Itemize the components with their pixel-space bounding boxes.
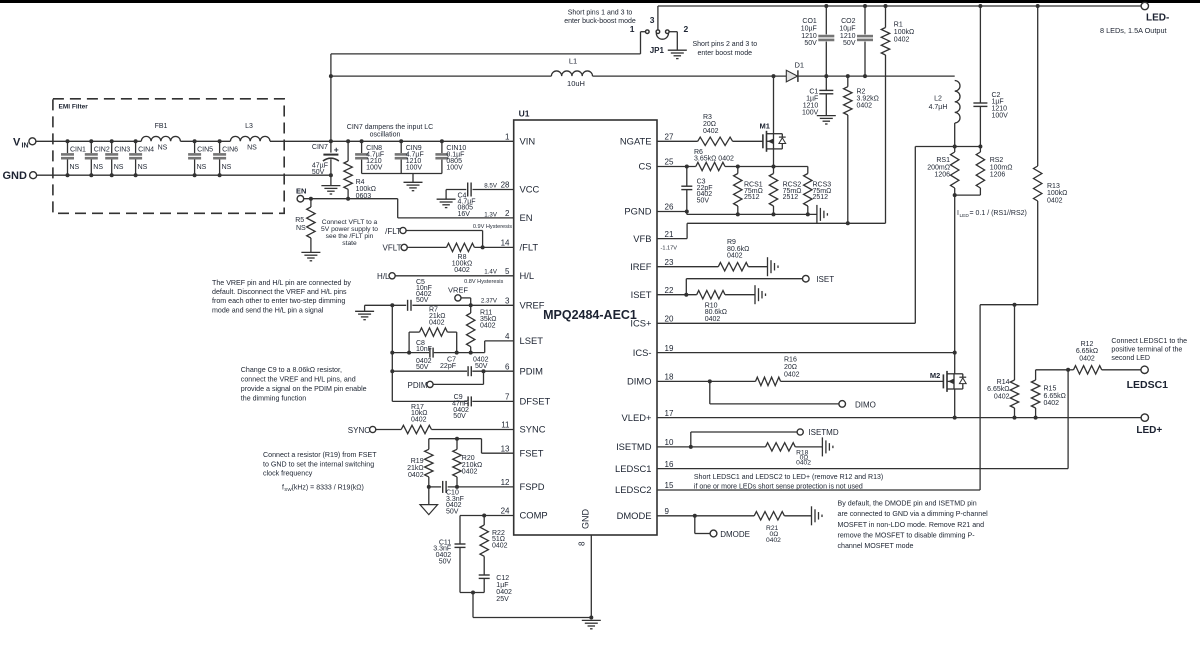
svg-text:50V: 50V	[475, 363, 488, 370]
svg-text:3: 3	[650, 15, 655, 25]
svg-text:IN: IN	[22, 143, 29, 150]
svg-text:0402: 0402	[894, 37, 910, 44]
svg-text:0402: 0402	[411, 416, 427, 423]
svg-text:R13: R13	[1047, 183, 1060, 190]
svg-text:19: 19	[665, 344, 674, 353]
svg-text:/FLT: /FLT	[385, 227, 401, 236]
svg-text:EN: EN	[296, 186, 306, 195]
svg-text:FSPD: FSPD	[520, 481, 545, 492]
svg-text:20: 20	[665, 315, 674, 324]
svg-text:Connect LEDSC1 to the: Connect LEDSC1 to the	[1111, 337, 1187, 345]
svg-text:clock frequency: clock frequency	[263, 470, 313, 478]
svg-text:0402: 0402	[454, 267, 470, 274]
svg-text:13: 13	[501, 444, 510, 453]
svg-text:0402: 0402	[429, 319, 445, 326]
svg-text:R14: R14	[997, 379, 1010, 386]
svg-text:The VREF pin and H/L pin are c: The VREF pin and H/L pin are connected b…	[212, 279, 351, 287]
svg-text:R2: R2	[857, 89, 866, 96]
svg-text:50V: 50V	[312, 169, 325, 176]
svg-text:4.7µH: 4.7µH	[929, 104, 948, 111]
svg-text:100kΩ: 100kΩ	[1047, 190, 1067, 197]
svg-text:50V: 50V	[804, 40, 817, 47]
svg-text:Connect VFLT to a: Connect VFLT to a	[322, 219, 378, 226]
svg-text:10nF: 10nF	[416, 346, 432, 353]
svg-text:DFSET: DFSET	[520, 396, 551, 407]
svg-text:6.65kΩ: 6.65kΩ	[1044, 393, 1066, 400]
svg-text:SYNC: SYNC	[348, 426, 370, 435]
svg-text:100V: 100V	[992, 113, 1009, 120]
svg-text:NS: NS	[247, 145, 257, 152]
svg-text:CIN4: CIN4	[138, 147, 154, 154]
svg-text:2.37V: 2.37V	[481, 298, 498, 305]
svg-text:GND: GND	[581, 509, 591, 530]
svg-text:50V: 50V	[416, 297, 429, 304]
svg-text:NS: NS	[197, 164, 207, 171]
svg-text:0402: 0402	[1044, 400, 1060, 407]
svg-text:4: 4	[505, 332, 510, 341]
svg-text:LEDSC1: LEDSC1	[615, 463, 651, 474]
svg-text:1.4V: 1.4V	[484, 269, 498, 276]
svg-text:C12: C12	[496, 575, 509, 582]
svg-text:RS2: RS2	[990, 157, 1004, 164]
svg-text:10: 10	[665, 438, 674, 447]
svg-text:connect the VREF and H/L pins,: connect the VREF and H/L pins, and	[241, 376, 356, 384]
svg-text:NS: NS	[138, 164, 148, 171]
svg-text:MOSFET in non-LDO mode. Remove: MOSFET in non-LDO mode. Remove R21 and	[838, 521, 985, 529]
svg-text:C1: C1	[809, 89, 818, 96]
svg-text:NS: NS	[70, 164, 80, 171]
svg-text:6.65kΩ: 6.65kΩ	[1076, 348, 1098, 355]
svg-text:LED-: LED-	[1146, 13, 1169, 24]
svg-text:D1: D1	[795, 61, 805, 70]
svg-text:CS: CS	[638, 161, 651, 172]
svg-text:17: 17	[665, 409, 674, 418]
svg-text:0402: 0402	[727, 252, 743, 259]
svg-text:enter boost mode: enter boost mode	[698, 50, 753, 57]
svg-text:0402: 0402	[492, 543, 508, 550]
svg-text:2512: 2512	[744, 194, 760, 201]
svg-text:3: 3	[505, 297, 510, 306]
svg-text:NS: NS	[114, 164, 124, 171]
svg-text:ICS+: ICS+	[630, 318, 652, 329]
svg-text:NGATE: NGATE	[620, 136, 652, 147]
svg-text:22: 22	[665, 286, 674, 295]
svg-text:Short LEDSC1 and LEDSC2 to LED: Short LEDSC1 and LEDSC2 to LED+ (remove …	[694, 474, 883, 481]
svg-text:100kΩ: 100kΩ	[894, 29, 914, 36]
svg-text:2: 2	[684, 24, 689, 34]
svg-text:6: 6	[505, 362, 510, 371]
svg-text:RS1: RS1	[936, 157, 950, 164]
svg-text:ICS-: ICS-	[633, 347, 652, 358]
svg-text:1210: 1210	[801, 33, 817, 40]
svg-text:enter buck-boost mode: enter buck-boost mode	[564, 18, 636, 25]
svg-text:L2: L2	[934, 96, 942, 103]
svg-text:M2: M2	[930, 371, 940, 380]
svg-text:(kHz) = 8333 / R19(kΩ): (kHz) = 8333 / R19(kΩ)	[292, 484, 364, 491]
svg-text:8 LEDs, 1.5A Output: 8 LEDs, 1.5A Output	[1100, 26, 1167, 35]
svg-text:0402: 0402	[1079, 355, 1095, 362]
svg-text:1206: 1206	[990, 172, 1006, 179]
svg-text:CIN6: CIN6	[222, 147, 238, 154]
svg-text:R16: R16	[784, 357, 797, 364]
svg-text:are connected to GND via a dim: are connected to GND via a dimming P-cha…	[838, 510, 989, 518]
svg-text:11: 11	[501, 421, 510, 430]
svg-text:ISETMD: ISETMD	[808, 428, 838, 437]
svg-text:LSET: LSET	[520, 335, 544, 346]
svg-text:18: 18	[665, 373, 674, 382]
svg-text:100mΩ: 100mΩ	[990, 164, 1013, 171]
svg-text:12: 12	[501, 478, 510, 487]
svg-text:20Ω: 20Ω	[703, 121, 716, 128]
svg-text:VFB: VFB	[633, 233, 651, 244]
svg-text:remove the MOSFET to disable d: remove the MOSFET to disable dimming P-	[838, 531, 976, 539]
svg-text:LED: LED	[960, 213, 970, 219]
svg-text:CIN5: CIN5	[197, 147, 213, 154]
svg-text:1210: 1210	[840, 33, 856, 40]
svg-text:DIMO: DIMO	[627, 376, 651, 387]
svg-text:0402: 0402	[766, 537, 781, 544]
svg-text:50V: 50V	[453, 413, 466, 420]
svg-text:CO1: CO1	[802, 18, 817, 25]
svg-text:21kΩ: 21kΩ	[407, 465, 424, 472]
svg-text:100V: 100V	[802, 110, 819, 117]
svg-text:ISETMD: ISETMD	[616, 441, 652, 452]
svg-text:CIN3: CIN3	[114, 147, 130, 154]
svg-text:R19: R19	[411, 458, 424, 465]
svg-text:1µF: 1µF	[806, 96, 818, 103]
svg-text:/FLT: /FLT	[520, 242, 539, 253]
svg-text:14: 14	[501, 239, 510, 248]
svg-text:50V: 50V	[439, 558, 452, 565]
svg-text:VREF: VREF	[448, 285, 468, 294]
svg-text:CIN1: CIN1	[70, 147, 86, 154]
svg-text:100V: 100V	[406, 165, 423, 172]
svg-text:R4: R4	[356, 179, 365, 186]
svg-text:COMP: COMP	[520, 510, 548, 521]
svg-text:H/L: H/L	[377, 272, 390, 281]
svg-text:10µF: 10µF	[801, 26, 817, 33]
svg-text:DIMO: DIMO	[855, 401, 876, 410]
svg-text:PDIM: PDIM	[520, 365, 544, 376]
svg-text:LED+: LED+	[1136, 425, 1162, 436]
svg-text:CIN2: CIN2	[94, 147, 110, 154]
svg-text:0402: 0402	[462, 468, 478, 475]
svg-text:MPQ2484-AEC1: MPQ2484-AEC1	[543, 308, 637, 322]
svg-text:2512: 2512	[813, 194, 829, 201]
svg-text:0402: 0402	[857, 103, 873, 110]
svg-text:M1: M1	[760, 121, 770, 130]
svg-text:FSET: FSET	[520, 447, 544, 458]
svg-text:100V: 100V	[446, 165, 463, 172]
svg-text:NS: NS	[222, 164, 232, 171]
svg-text:R3: R3	[703, 114, 712, 121]
svg-text:Connect a resistor (R19) from: Connect a resistor (R19) from FSET	[263, 451, 377, 459]
svg-text:24: 24	[501, 507, 510, 516]
svg-text:27: 27	[665, 133, 674, 142]
svg-text:50V: 50V	[697, 198, 710, 205]
svg-text:26: 26	[665, 203, 674, 212]
svg-text:DMODE: DMODE	[720, 530, 750, 539]
svg-text:28: 28	[501, 181, 510, 190]
svg-text:200mΩ: 200mΩ	[927, 164, 950, 171]
svg-text:1: 1	[630, 24, 635, 34]
svg-text:10µF: 10µF	[839, 26, 855, 33]
svg-text:0402: 0402	[408, 472, 424, 479]
svg-text:50V: 50V	[843, 40, 856, 47]
svg-text:0402: 0402	[994, 393, 1010, 400]
svg-text:IREF: IREF	[630, 261, 652, 272]
svg-text:+: +	[334, 145, 339, 155]
svg-text:= 0.1 / (RS1//RS2): = 0.1 / (RS1//RS2)	[970, 210, 1027, 217]
svg-text:CIN7 dampens the input LC: CIN7 dampens the input LC	[347, 124, 433, 131]
svg-text:By default, the DMODE pin and: By default, the DMODE pin and ISETMD pin	[838, 500, 977, 508]
svg-text:9: 9	[665, 507, 670, 516]
svg-text:0402: 0402	[784, 371, 800, 378]
svg-text:7: 7	[505, 393, 510, 402]
svg-text:16V: 16V	[458, 211, 471, 218]
svg-text:VLED+: VLED+	[622, 412, 652, 423]
svg-text:SYNC: SYNC	[520, 424, 546, 435]
svg-text:16: 16	[665, 460, 674, 469]
svg-text:20Ω: 20Ω	[784, 364, 797, 371]
svg-text:1: 1	[505, 133, 510, 142]
svg-text:CIN7: CIN7	[312, 144, 328, 151]
svg-text:21: 21	[665, 230, 674, 239]
svg-text:0402: 0402	[796, 460, 811, 467]
svg-text:3.65kΩ 0402: 3.65kΩ 0402	[694, 156, 734, 163]
svg-text:PGND: PGND	[624, 206, 651, 217]
svg-text:0402: 0402	[1047, 197, 1063, 204]
svg-text:to GND to set the internal swi: to GND to set the internal switching	[263, 460, 374, 468]
svg-text:state: state	[342, 240, 357, 247]
svg-text:L1: L1	[569, 57, 577, 66]
svg-text:50V: 50V	[446, 509, 459, 516]
svg-text:CO2: CO2	[841, 18, 856, 25]
svg-text:2: 2	[505, 209, 510, 218]
svg-text:if one or more LEDs short sens: if one or more LEDs short sense protecti…	[694, 483, 863, 490]
svg-text:5V power supply to: 5V power supply to	[321, 226, 378, 233]
svg-text:the dimming function: the dimming function	[241, 395, 307, 403]
svg-text:NS: NS	[296, 225, 306, 232]
svg-text:0.9V Hysteresis: 0.9V Hysteresis	[473, 224, 512, 230]
svg-text:PDIM: PDIM	[408, 381, 428, 390]
svg-text:R15: R15	[1044, 386, 1057, 393]
svg-text:1210: 1210	[803, 103, 819, 110]
svg-text:23: 23	[665, 258, 674, 267]
svg-text:ISET: ISET	[816, 275, 834, 284]
svg-text:100V: 100V	[366, 165, 383, 172]
svg-text:Change C9 to a 8.06kΩ resistor: Change C9 to a 8.06kΩ resistor,	[241, 366, 342, 374]
svg-text:from each other to enter two-s: from each other to enter two-step dimmin…	[212, 297, 345, 305]
svg-text:0402: 0402	[496, 589, 512, 596]
svg-text:50V: 50V	[416, 364, 429, 371]
svg-text:DMODE: DMODE	[617, 510, 652, 521]
svg-text:U1: U1	[519, 108, 530, 118]
svg-text:0.8V Hysteresis: 0.8V Hysteresis	[464, 279, 503, 285]
svg-text:8: 8	[578, 541, 587, 546]
svg-text:VIN: VIN	[520, 136, 536, 147]
svg-text:1µF: 1µF	[496, 582, 508, 589]
svg-text:-1.17V: -1.17V	[661, 245, 678, 251]
svg-text:2512: 2512	[783, 194, 799, 201]
svg-text:R12: R12	[1081, 341, 1094, 348]
svg-text:3.92kΩ: 3.92kΩ	[857, 96, 879, 103]
svg-text:10uH: 10uH	[567, 79, 585, 88]
svg-text:oscillation: oscillation	[370, 132, 401, 139]
svg-text:5: 5	[505, 267, 510, 276]
svg-text:positive terminal of the: positive terminal of the	[1111, 346, 1182, 354]
svg-text:L3: L3	[245, 123, 253, 130]
svg-text:see the /FLT pin: see the /FLT pin	[326, 233, 374, 240]
svg-text:1206: 1206	[934, 172, 950, 179]
svg-text:VFLT: VFLT	[383, 244, 402, 253]
svg-text:LEDSC2: LEDSC2	[615, 484, 651, 495]
svg-text:22pF: 22pF	[440, 363, 456, 370]
svg-text:ISET: ISET	[631, 289, 652, 300]
svg-text:8.5V: 8.5V	[484, 183, 498, 190]
svg-text:EN: EN	[520, 212, 533, 223]
svg-text:0402: 0402	[480, 322, 496, 329]
svg-text:provide a signal on the PDIM p: provide a signal on the PDIM pin enable	[241, 385, 367, 393]
svg-text:GND: GND	[3, 170, 28, 182]
svg-text:second LED: second LED	[1111, 354, 1150, 362]
svg-text:25V: 25V	[496, 596, 509, 603]
svg-text:0402: 0402	[705, 316, 721, 323]
svg-text:100kΩ: 100kΩ	[356, 186, 376, 193]
svg-text:15: 15	[665, 481, 674, 490]
svg-text:V: V	[13, 136, 21, 148]
svg-text:25: 25	[665, 158, 674, 167]
svg-text:EMI Filter: EMI Filter	[59, 104, 89, 111]
svg-text:R5: R5	[295, 217, 304, 224]
svg-text:mode and send the H/L pin a si: mode and send the H/L pin a signal	[212, 306, 324, 314]
svg-text:channel MOSFET mode: channel MOSFET mode	[838, 542, 914, 550]
svg-text:R1: R1	[894, 22, 903, 29]
svg-text:default. Disconnect the VREF a: default. Disconnect the VREF and H/L pin…	[212, 288, 347, 296]
svg-text:JP1: JP1	[650, 46, 665, 55]
svg-text:VCC: VCC	[520, 184, 540, 195]
svg-text:Short pins 1 and 3 to: Short pins 1 and 3 to	[568, 10, 633, 17]
svg-text:LEDSC1: LEDSC1	[1127, 379, 1169, 391]
svg-text:6.65kΩ: 6.65kΩ	[987, 386, 1009, 393]
svg-text:NS: NS	[158, 145, 168, 152]
svg-text:VREF: VREF	[520, 300, 545, 311]
svg-text:H/L: H/L	[520, 270, 535, 281]
svg-text:Short pins 2 and 3 to: Short pins 2 and 3 to	[693, 41, 758, 48]
svg-text:FB1: FB1	[155, 123, 168, 130]
svg-text:NS: NS	[93, 164, 103, 171]
svg-text:0402: 0402	[703, 128, 719, 135]
